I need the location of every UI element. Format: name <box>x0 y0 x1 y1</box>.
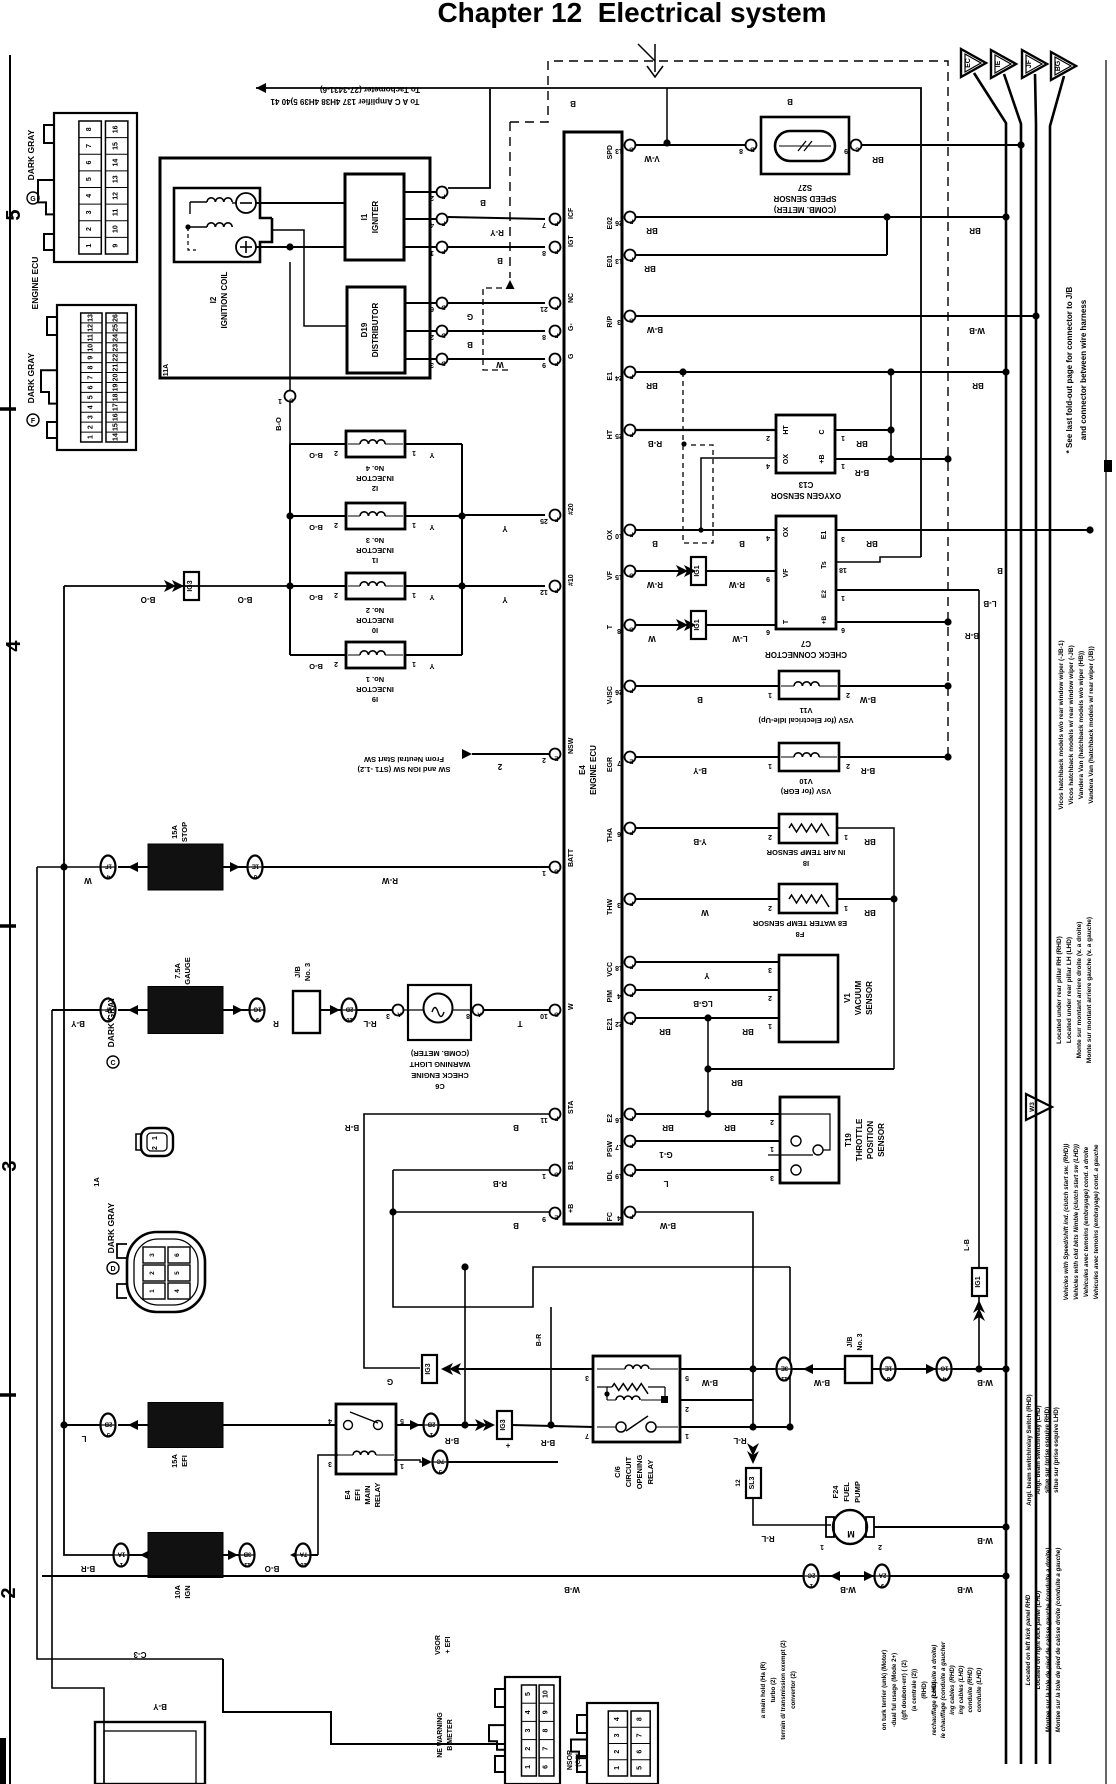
injector I1 box <box>346 503 405 529</box>
svg-text:To A C Amplifier 137 4H38 4H39: To A C Amplifier 137 4H38 4H39 5)40 41 <box>270 97 419 106</box>
svg-text:3: 3 <box>614 1733 621 1737</box>
svg-text:F: F <box>441 248 445 254</box>
svg-text:B: B <box>652 539 658 548</box>
svg-text:2: 2 <box>334 591 338 598</box>
ECU left pin +B <box>550 1208 561 1219</box>
svg-text:5: 5 <box>685 1374 689 1381</box>
wire E2 BR <box>636 1113 780 1115</box>
svg-text:BR: BR <box>644 264 656 273</box>
svg-text:R/P: R/P <box>607 316 614 328</box>
svg-text:I1: I1 <box>360 213 369 220</box>
svg-text:IG3: IG3 <box>187 580 194 591</box>
svg-text:From Neutral Start SW: From Neutral Start SW <box>363 755 444 764</box>
svg-text:B-Y: B-Y <box>70 1019 84 1028</box>
ECU left pin G <box>550 354 561 365</box>
wire gauge left <box>52 1009 101 1011</box>
svg-text:DISTRIBUTOR: DISTRIBUTOR <box>371 303 380 358</box>
svg-text:EGR: EGR <box>607 757 614 772</box>
svg-text:J/B: J/B <box>847 1337 854 1348</box>
svg-text:C: C <box>819 429 826 434</box>
STA arrows <box>449 1363 461 1375</box>
svg-text:2: 2 <box>685 1405 689 1412</box>
svg-text:W-B: W-B <box>564 1585 580 1594</box>
ECU right pin HT <box>625 425 636 436</box>
svg-text:and connector between wire har: and connector between wire harness <box>1079 299 1088 440</box>
svg-text:IE: IE <box>995 60 1002 67</box>
node gnd1069 <box>704 1065 711 1072</box>
label D DARK GRAY <box>107 1262 119 1274</box>
zone tick 4/3 <box>0 924 16 928</box>
svg-text:Montee sur la tole de pied de: Montee sur la tole de pied de caisse gau… <box>1045 1548 1052 1733</box>
svg-text:2A: 2A <box>878 1572 886 1578</box>
svg-text:(C/N: (C/N <box>575 1753 582 1767</box>
svg-text:6: 6 <box>841 626 845 633</box>
svg-text:E2: E2 <box>821 590 828 598</box>
svg-text:L: L <box>81 1434 86 1443</box>
svg-text:22: 22 <box>113 354 120 362</box>
wire E21 BR <box>636 1017 779 1019</box>
svg-text:SL3: SL3 <box>749 1476 756 1489</box>
svg-text:LG-B: LG-B <box>693 999 713 1008</box>
svg-text:3: 3 <box>841 535 845 542</box>
svg-text:2: 2 <box>768 994 772 1001</box>
oval connector 2 1F <box>101 999 116 1022</box>
VSV V10 coil <box>794 753 819 757</box>
svg-text:22: 22 <box>615 1020 623 1027</box>
svg-text:3: 3 <box>585 1374 589 1381</box>
node FC-1369 <box>749 1365 756 1372</box>
svg-text:DARK GRAY: DARK GRAY <box>106 1202 116 1253</box>
svg-text:9: 9 <box>542 361 546 368</box>
svg-text:G-1: G-1 <box>659 1150 673 1159</box>
wire stop row left <box>37 866 101 868</box>
node dash-757 <box>944 753 951 760</box>
stop row corner bus <box>37 867 223 1659</box>
ignition coil dashed leg <box>188 227 196 250</box>
water temp sensor box <box>779 884 837 913</box>
node checkE1 end <box>1086 526 1093 533</box>
svg-text:Y: Y <box>429 662 434 671</box>
svg-text:1: 1 <box>768 762 772 769</box>
svg-text:BATT: BATT <box>568 848 575 867</box>
svg-text:EFI: EFI <box>353 1489 362 1501</box>
svg-text:1: 1 <box>844 833 848 840</box>
svg-text:E01: E01 <box>607 255 614 268</box>
svg-text:19: 19 <box>113 383 120 391</box>
svg-text:3: 3 <box>386 1012 390 1019</box>
svg-text:8: 8 <box>86 127 93 131</box>
svg-text:OX: OX <box>783 527 790 537</box>
svg-text:9: 9 <box>542 1215 546 1222</box>
zone tick 5/4 <box>0 407 16 411</box>
wire check E1 BR <box>836 529 1090 531</box>
svg-text:R-W: R-W <box>729 580 745 589</box>
svg-text:BR: BR <box>662 1123 674 1132</box>
svg-text:4: 4 <box>328 1417 332 1424</box>
ECU right pin THA <box>625 823 636 834</box>
svg-text:W: W <box>496 360 504 369</box>
svg-text:VSV (for EGR): VSV (for EGR) <box>780 787 831 796</box>
svg-text:Vehicles with Speed/shift ind.: Vehicles with Speed/shift ind. (clutch s… <box>1063 1144 1070 1301</box>
relay switch <box>616 1422 626 1432</box>
oval connector 2B <box>101 1414 116 1437</box>
wire <box>819 1575 876 1577</box>
svg-text:W-B: W-B <box>957 1585 973 1594</box>
svg-text:#20: #20 <box>568 503 575 515</box>
svg-text:IG1: IG1 <box>694 619 701 630</box>
JB No3 box <box>293 991 320 1033</box>
svg-text:5: 5 <box>525 1692 532 1696</box>
svg-text:F: F <box>629 1115 633 1121</box>
wire check 1 L-B <box>836 589 979 591</box>
svg-text:1: 1 <box>412 449 416 456</box>
wire T to check <box>706 624 776 626</box>
svg-text:BR: BR <box>659 1027 671 1036</box>
page connector triangle BG <box>1051 52 1076 80</box>
oval connector 2D <box>342 999 357 1022</box>
svg-text:2C: 2C <box>807 1572 815 1578</box>
svg-text:R-B: R-B <box>648 439 662 448</box>
svg-text:VCC: VCC <box>607 962 614 977</box>
wire jb out <box>320 1009 342 1011</box>
EFI main relay box E4 <box>336 1404 396 1474</box>
ECU left pin STA <box>550 1109 561 1120</box>
svg-text:1G: 1G <box>253 1006 261 1012</box>
svg-text:4: 4 <box>86 194 93 198</box>
svg-text:C/6: C/6 <box>613 1466 622 1478</box>
svg-text:2: 2 <box>430 333 434 340</box>
node bus64-1425 <box>60 1421 67 1428</box>
svg-text:16: 16 <box>113 413 120 421</box>
svg-text:G: G <box>467 312 473 321</box>
svg-text:L-B: L-B <box>983 599 997 608</box>
svg-text:5: 5 <box>87 395 94 399</box>
svg-text:IG1: IG1 <box>694 565 701 576</box>
node shield top <box>681 441 686 446</box>
node 790-1427 <box>786 1423 793 1430</box>
svg-text:C-3: C-3 <box>133 1650 146 1659</box>
speed sensor pin B <box>746 140 757 151</box>
svg-text:THA: THA <box>607 828 614 842</box>
svg-text:12: 12 <box>540 588 548 595</box>
svg-text:4: 4 <box>617 1214 621 1221</box>
page connector triangle IE <box>991 50 1016 78</box>
wire to EC line <box>952 1368 1006 1370</box>
svg-text:3: 3 <box>328 1460 332 1467</box>
svg-text:RELAY: RELAY <box>646 1460 655 1485</box>
svg-text:E: E <box>554 1214 558 1220</box>
ECU right pin PIM <box>625 985 636 996</box>
svg-text:IG1: IG1 <box>975 1276 982 1287</box>
svg-text:Angl. beam switch/relay Switch: Angl. beam switch/relay Switch (RHD) <box>1026 1394 1033 1505</box>
relay resistor <box>612 1384 648 1394</box>
lamp right pin <box>473 1005 484 1016</box>
svg-text:SENSOR: SENSOR <box>877 1123 886 1157</box>
svg-text:IDL: IDL <box>607 1169 614 1181</box>
node 1006-1576 <box>1002 1572 1009 1579</box>
svg-text:G: G <box>554 1011 559 1017</box>
svg-text:NC: NC <box>568 293 575 303</box>
svg-text:INJECTOR: INJECTOR <box>356 685 394 694</box>
connector C oval 1-2 <box>141 1128 173 1156</box>
relay coil out <box>394 1460 424 1462</box>
wire check 6 B-R <box>836 621 948 623</box>
warning triangle W3 <box>1026 1094 1052 1120</box>
node 1006-1527 <box>1002 1523 1009 1530</box>
svg-text:3: 3 <box>149 1253 156 1257</box>
svg-text:OX: OX <box>783 454 790 464</box>
svg-text:No. 3: No. 3 <box>303 963 312 981</box>
injector right bus <box>461 444 463 655</box>
wire G+ <box>448 358 545 360</box>
wire ign to relay coil <box>311 1554 318 1556</box>
svg-text:BR: BR <box>866 539 878 548</box>
svg-text:F: F <box>629 1019 633 1025</box>
svg-text:NE WARNING: NE WARNING <box>437 1712 444 1758</box>
connector D round 6-pin <box>127 1232 205 1312</box>
page mark <box>1104 460 1112 472</box>
svg-text:16: 16 <box>113 125 120 133</box>
svg-text:RELAY: RELAY <box>373 1483 382 1508</box>
svg-text:STOP: STOP <box>180 822 189 842</box>
check engine lamp box <box>408 985 471 1040</box>
ECU right pin PSW <box>625 1136 636 1147</box>
svg-text:21: 21 <box>540 305 548 312</box>
wire relay out <box>396 1424 424 1426</box>
ECU left pin NC <box>550 298 561 309</box>
svg-text:BR: BR <box>646 226 658 235</box>
svg-text:15A: 15A <box>170 1454 179 1468</box>
svg-text:IGNITER: IGNITER <box>371 201 380 234</box>
svg-text:1F: 1F <box>105 863 112 869</box>
wire STA <box>364 1114 549 1368</box>
zone tick 3/2 <box>0 1393 16 1397</box>
svg-text:2: 2 <box>766 434 770 441</box>
svg-text:convertor (2): convertor (2) <box>790 1671 797 1709</box>
wire <box>118 866 148 868</box>
svg-text:4: 4 <box>430 221 434 228</box>
svg-text:W-B: W-B <box>840 1585 856 1594</box>
fuse 7.5A GAUGE <box>148 987 223 1034</box>
svg-text:Y: Y <box>429 523 434 532</box>
svg-text:EFI: EFI <box>180 1455 189 1467</box>
svg-text:B: B <box>750 146 755 152</box>
wire R/P W-B <box>636 315 1036 317</box>
svg-text:1: 1 <box>770 1145 774 1152</box>
svg-text:Vehicles with ckd bkts Nimble: Vehicles with ckd bkts Nimble (clutch st… <box>1073 1144 1080 1300</box>
svg-text:OPENING: OPENING <box>635 1455 644 1490</box>
svg-text:R-L: R-L <box>761 1534 774 1543</box>
svg-text:13: 13 <box>87 314 94 322</box>
svg-text:1: 1 <box>278 397 282 404</box>
svg-text:10: 10 <box>615 532 623 539</box>
svg-text:I2: I2 <box>372 484 378 493</box>
svg-text:2: 2 <box>846 691 850 698</box>
svg-text:DARK GRAY: DARK GRAY <box>26 129 36 180</box>
node 753-1427 <box>749 1423 756 1430</box>
svg-text:Montee sur la tole de pied de: Montee sur la tole de pied de caisse dro… <box>1055 1548 1062 1733</box>
svg-text:2: 2 <box>878 1543 882 1550</box>
svg-text:F: F <box>629 900 633 906</box>
svg-text:W-B: W-B <box>969 326 985 335</box>
oval connector 7C <box>433 1451 448 1474</box>
injector I2 coil <box>360 440 385 444</box>
injector bus nodes <box>286 512 293 519</box>
svg-text:4: 4 <box>766 534 770 541</box>
svg-text:R-L: R-L <box>733 1436 746 1445</box>
wire IDL <box>636 1169 780 1171</box>
wire relay1 ext <box>753 1426 790 1428</box>
svg-text:11: 11 <box>87 334 94 342</box>
oval connector 7A <box>296 1544 311 1567</box>
svg-text:on turk terrier (unk) (Motor): on turk terrier (unk) (Motor) <box>881 1650 888 1730</box>
svg-text:E02: E02 <box>607 217 614 230</box>
svg-text:B: B <box>467 340 473 349</box>
svg-text:1: 1 <box>841 594 845 601</box>
svg-text:2D: 2D <box>345 1006 353 1012</box>
svg-text:2: 2 <box>0 1587 20 1598</box>
svg-text:8: 8 <box>87 366 94 370</box>
tach wire <box>256 88 921 557</box>
svg-text:IG3: IG3 <box>425 1363 432 1374</box>
svg-text:B-O: B-O <box>274 417 283 431</box>
svg-text:9: 9 <box>766 575 770 582</box>
svg-text:ing cables (LHD): ing cables (LHD) <box>958 1666 965 1715</box>
svg-text:B-W: B-W <box>860 695 876 704</box>
arrow 2C <box>830 1571 840 1581</box>
node OX split <box>698 527 703 532</box>
svg-text:F: F <box>629 431 633 437</box>
svg-text:7: 7 <box>542 221 546 228</box>
svg-text:2: 2 <box>497 762 502 771</box>
svg-text:E1: E1 <box>821 531 828 540</box>
wire VF R-W <box>636 570 690 572</box>
svg-text:G: G <box>554 868 559 874</box>
ECU right pin FC <box>625 1207 636 1218</box>
ignition coil box <box>174 188 272 262</box>
wire ign out <box>223 1554 240 1556</box>
wire 7C out <box>448 1461 558 1463</box>
dashed shield box oxygen <box>683 445 713 543</box>
wire coil secondary to distributor <box>272 230 347 326</box>
svg-text:13: 13 <box>615 257 623 264</box>
svg-text:IGT: IGT <box>568 235 575 247</box>
svg-text:18: 18 <box>113 393 120 401</box>
svg-text:Y: Y <box>429 451 434 460</box>
injector I2 leads <box>290 443 346 445</box>
svg-text:B-W: B-W <box>660 1221 676 1230</box>
node 891-459 <box>887 455 894 462</box>
left page border rule <box>9 55 11 1784</box>
svg-text:7.5A: 7.5A <box>173 962 182 978</box>
wire OX to sensor pin4 <box>701 458 776 530</box>
svg-text:I9: I9 <box>372 695 378 704</box>
svg-text:8: 8 <box>637 1717 644 1721</box>
ignition coil secondary winding <box>207 223 232 227</box>
junction box SL3 <box>746 1468 761 1498</box>
svg-text:B-R: B-R <box>965 631 979 640</box>
svg-text:25: 25 <box>113 324 120 332</box>
svg-text:2: 2 <box>334 521 338 528</box>
svg-text:OX: OX <box>607 530 614 540</box>
svg-text:7: 7 <box>585 1432 589 1439</box>
svg-text:Y: Y <box>502 595 508 604</box>
svg-text:IG3: IG3 <box>500 1419 507 1430</box>
svg-text:W: W <box>84 876 92 885</box>
check connector box C7 <box>776 516 836 629</box>
ECU right pin T <box>625 620 636 631</box>
svg-text:2: 2 <box>768 904 772 911</box>
svg-text:Located on right kick panel (L: Located on right kick panel (LHD) <box>1035 1591 1042 1690</box>
wire V-ISC B <box>636 685 779 687</box>
wire coil lead down to injector bus <box>289 402 291 444</box>
node E02/E01 <box>883 213 890 220</box>
relay inner nodes <box>604 1391 609 1396</box>
wire coil+ node <box>256 246 345 248</box>
svg-text:E: E <box>629 758 633 764</box>
svg-text:conduite (RHD): conduite (RHD) <box>967 1667 974 1712</box>
svg-text:B: B <box>697 695 703 704</box>
svg-text:6: 6 <box>87 385 94 389</box>
page bottom-left black edge <box>0 1738 6 1784</box>
wire E1 BR <box>636 371 1006 373</box>
T double arrow <box>676 619 688 631</box>
label C DARK GRAY <box>107 1056 119 1068</box>
svg-text:10: 10 <box>300 1561 307 1567</box>
svg-text:(RHD): (RHD) <box>921 1681 928 1699</box>
svg-text:5: 5 <box>174 1271 181 1275</box>
svg-text:3: 3 <box>617 318 621 325</box>
ECU right pin R/P <box>625 311 636 322</box>
label G DARK GRAY <box>27 192 39 204</box>
svg-text:F: F <box>629 256 633 262</box>
svg-text:8: 8 <box>542 333 546 340</box>
throttle sensor box T19 <box>780 1097 839 1183</box>
svg-text:9: 9 <box>543 1710 550 1714</box>
svg-text:G-: G- <box>568 323 575 331</box>
svg-text:F: F <box>629 1213 633 1219</box>
svg-text:Ts: Ts <box>821 561 828 569</box>
svg-text:2: 2 <box>768 833 772 840</box>
svg-text:THROTTLE: THROTTLE <box>855 1118 864 1161</box>
svg-text:R-Y: R-Y <box>489 228 503 237</box>
svg-text:B-O: B-O <box>141 595 156 604</box>
svg-text:1: 1 <box>841 462 845 469</box>
ignition coil junction <box>185 224 190 229</box>
arrow into fuse <box>128 862 138 872</box>
svg-text:PSW: PSW <box>607 1141 614 1157</box>
svg-text:24: 24 <box>113 334 120 342</box>
connector circle on coil lead <box>285 391 296 402</box>
svg-text:E4: E4 <box>578 765 587 775</box>
svg-text:situe sur (prise esquive L: situe sur (prise esquive LHD) <box>1053 1407 1060 1493</box>
svg-text:IGNITION COIL: IGNITION COIL <box>220 271 229 328</box>
svg-text:Angl. beam switch/relay (LHD): Angl. beam switch/relay (LHD) <box>1035 1405 1042 1494</box>
svg-text:26: 26 <box>615 688 623 695</box>
svg-text:26: 26 <box>113 314 120 322</box>
L-B continue <box>978 1296 980 1369</box>
ignition coil primary winding <box>207 198 232 202</box>
node tach/SPD <box>663 139 670 146</box>
svg-text:G: G <box>629 146 634 152</box>
svg-text:BG: BG <box>1055 60 1062 71</box>
svg-text:12: 12 <box>113 192 120 200</box>
svg-text:B-Y: B-Y <box>152 1702 166 1711</box>
junction box IG3 (B-O) <box>184 572 199 600</box>
svg-text:6: 6 <box>430 305 434 312</box>
node SPD-JF <box>1017 141 1024 148</box>
svg-text:1: 1 <box>614 1766 621 1770</box>
